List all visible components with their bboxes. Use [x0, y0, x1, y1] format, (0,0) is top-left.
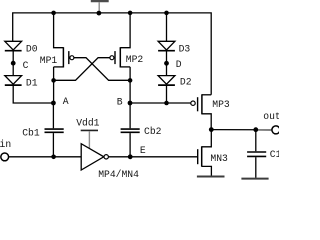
svg-text:D2: D2: [180, 77, 192, 88]
wire MP2 gate cross to node A: [54, 58, 110, 81]
svg-text:in: in: [0, 139, 11, 150]
wire node B row to MP3 gate: [130, 102, 191, 104]
svg-text:Vdd1: Vdd1: [76, 117, 99, 128]
terminal out: [272, 126, 280, 134]
svg-text:D1: D1: [26, 78, 38, 89]
svg-text:B: B: [117, 97, 123, 108]
svg-text:Cb2: Cb2: [144, 126, 162, 137]
diode D0: [5, 41, 22, 50]
wire D3 cathode to D2 anode: [166, 52, 168, 76]
wire in to inverter input: [9, 156, 82, 158]
node B dot: [128, 101, 133, 106]
svg-text:A: A: [63, 96, 69, 107]
junction dot gate cross on B branch: [128, 78, 133, 83]
junction dot MP1 source on rail: [51, 11, 56, 16]
inverter MP4/MN4: [81, 144, 108, 170]
wire MP1 gate cross to node B: [74, 58, 130, 81]
svg-text:C: C: [23, 60, 29, 71]
power symbol Vdd (top): [91, 1, 109, 13]
wire D3 top from rail: [166, 13, 168, 41]
capacitor Cb2: [121, 103, 140, 157]
wire output row: [211, 129, 272, 131]
diode D3: [158, 41, 175, 50]
wire D1 cathode down and right to node A: [13, 86, 53, 103]
svg-text:D: D: [176, 59, 182, 70]
wire top rail with left and right drops: [13, 13, 212, 95]
wire inverter output to MN3 gate: [108, 156, 197, 158]
node A dot: [51, 101, 56, 106]
svg-text:D3: D3: [179, 43, 191, 54]
junction dot D3 top on rail: [164, 11, 169, 16]
junction dot C1 top: [253, 127, 258, 132]
svg-text:C1: C1: [270, 149, 279, 160]
svg-text:MN3: MN3: [210, 153, 228, 164]
ground MN3: [197, 176, 225, 178]
transistor MN3: [198, 130, 212, 176]
transistor MP3: [191, 94, 211, 129]
svg-text:D0: D0: [26, 43, 38, 54]
capacitor Cb1: [45, 103, 64, 157]
svg-text:MP1: MP1: [40, 55, 58, 66]
transistor MP1: [54, 13, 74, 68]
diode D2: [158, 76, 175, 86]
node E dot: [128, 154, 133, 159]
junction dot D2 bottom: [164, 101, 169, 106]
terminal in: [1, 153, 9, 161]
svg-text:MP4/MN4: MP4/MN4: [98, 169, 139, 180]
junction dot MP3/MN3 drain: [209, 127, 214, 132]
junction dot Cb1 bottom: [51, 155, 56, 160]
wire MP1 drain to node A: [53, 67, 55, 103]
junction dot MP2 source on rail: [128, 11, 133, 16]
svg-text:out: out: [263, 111, 279, 122]
diode D1: [5, 76, 22, 86]
junction dot gate cross on A branch: [51, 78, 56, 83]
node C dot: [11, 61, 16, 66]
transistor MP2: [110, 13, 130, 68]
wire MP2 drain to node B: [129, 67, 131, 103]
svg-text:MP2: MP2: [126, 54, 144, 65]
wire D0 cathode to D1 anode: [12, 52, 14, 76]
junction dot power on rail: [97, 11, 102, 16]
capacitor C1: [247, 130, 266, 178]
wire D2 cathode to B row: [166, 86, 168, 103]
power symbol Vdd1: [81, 130, 98, 149]
svg-text:MP3: MP3: [212, 99, 230, 110]
ground C1: [241, 178, 268, 180]
node D dot: [164, 61, 169, 66]
svg-text:E: E: [140, 145, 146, 156]
svg-text:Cb1: Cb1: [22, 128, 40, 139]
